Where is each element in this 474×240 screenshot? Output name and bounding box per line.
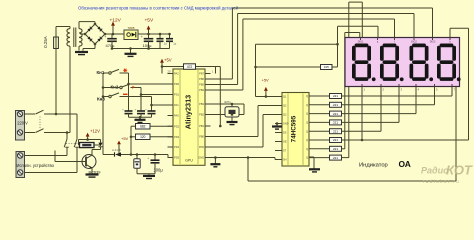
svg-text:DS: DS (283, 132, 287, 135)
svg-text:+12V: +12V (110, 17, 122, 23)
svg-text:120: 120 (140, 135, 146, 139)
svg-text:Q: Q (306, 139, 308, 142)
svg-text:SH: SH (283, 159, 287, 162)
svg-text:PB4: PB4 (199, 88, 204, 92)
svg-text:472: 472 (187, 65, 193, 69)
svg-text:Q: Q (306, 157, 308, 160)
svg-text:PD6: PD6 (199, 145, 205, 149)
svg-text:PA1: PA1 (174, 103, 179, 107)
svg-text:PB3: PB3 (199, 102, 204, 106)
svg-text:Q: Q (306, 122, 308, 125)
svg-text:PB2: PB2 (199, 113, 204, 117)
svg-text:PD0: PD0 (174, 82, 180, 86)
svg-text:Кн3: Кн3 (97, 97, 105, 102)
svg-text:100µ: 100µ (143, 43, 153, 48)
svg-text:PB6: PB6 (199, 77, 204, 81)
svg-text:Q: Q (306, 95, 308, 98)
svg-text:Индикатор: Индикатор (359, 162, 388, 168)
svg-text:221: 221 (333, 94, 338, 98)
svg-text:>: > (132, 85, 135, 91)
svg-text:7805: 7805 (128, 26, 135, 30)
svg-text:GND: GND (283, 123, 289, 126)
svg-text:DIG3: DIG3 (430, 40, 436, 43)
svg-text:Q: Q (306, 148, 308, 151)
svg-text:PD5: PD5 (174, 156, 180, 160)
svg-text:Q: Q (306, 113, 308, 116)
svg-text:Q: Q (306, 104, 308, 107)
svg-text:LL4148: LL4148 (112, 148, 121, 152)
svg-text:GPU: GPU (185, 159, 193, 163)
svg-text:470µ: 470µ (106, 43, 116, 48)
svg-text:Atiny2313: Atiny2313 (184, 95, 193, 129)
svg-text:radiokot.ru: radiokot.ru (423, 179, 460, 184)
svg-text:PD4: PD4 (174, 145, 180, 149)
svg-text:PD2: PD2 (174, 124, 180, 128)
svg-text:221: 221 (333, 138, 338, 142)
svg-text:315: 315 (324, 65, 329, 69)
svg-text:100µ: 100µ (154, 167, 164, 172)
svg-text:OE: OE (283, 141, 287, 144)
svg-text:220 V: 220 V (17, 121, 28, 126)
svg-text:BC639: BC639 (89, 170, 101, 175)
svg-text:221: 221 (333, 129, 338, 133)
svg-text:ST: ST (283, 150, 287, 153)
svg-text:+: + (141, 35, 143, 39)
svg-text:DIG1: DIG1 (358, 40, 364, 43)
svg-text:PB7: PB7 (199, 72, 204, 76)
svg-text:Q: Q (306, 130, 308, 133)
svg-text:КОТ: КОТ (446, 163, 473, 178)
svg-text:+5V: +5V (145, 17, 154, 23)
svg-text:PA0: PA0 (174, 114, 179, 118)
svg-text:PD1: PD1 (174, 93, 180, 97)
svg-text:+: + (104, 35, 106, 39)
svg-text:PD3: PD3 (174, 135, 180, 139)
svg-text:+5V: +5V (121, 136, 129, 141)
svg-text:1µ: 1µ (173, 42, 176, 46)
svg-text:221: 221 (333, 147, 338, 151)
svg-text:PB5: PB5 (199, 83, 204, 87)
svg-text:+5V: +5V (262, 78, 270, 83)
svg-text:GND: GND (198, 156, 204, 160)
svg-text:+: + (147, 156, 149, 160)
svg-text:Исполн. устройство: Исполн. устройство (17, 163, 55, 168)
svg-text:4МГц: 4МГц (224, 100, 231, 104)
svg-text:1µ: 1µ (164, 42, 167, 46)
svg-text:221: 221 (333, 112, 338, 116)
svg-text:682: 682 (140, 124, 146, 128)
svg-text:Обозначения резисторов показан: Обозначения резисторов показаны в соотве… (78, 5, 239, 10)
svg-text:+5V: +5V (164, 57, 172, 62)
svg-text:221: 221 (333, 156, 338, 160)
svg-text:PB1: PB1 (199, 124, 204, 128)
svg-text:221: 221 (333, 103, 338, 107)
svg-text:74HC595: 74HC595 (291, 115, 298, 142)
svg-text:PB0: PB0 (199, 135, 204, 139)
svg-text:DIG2: DIG2 (411, 40, 417, 43)
svg-text:ОА: ОА (399, 159, 411, 169)
svg-text:221: 221 (333, 121, 338, 125)
svg-text:PA2: PA2 (174, 72, 179, 76)
svg-text:0.25А: 0.25А (43, 36, 48, 48)
svg-text:+12V: +12V (90, 128, 100, 133)
svg-text:Радио: Радио (421, 166, 449, 176)
